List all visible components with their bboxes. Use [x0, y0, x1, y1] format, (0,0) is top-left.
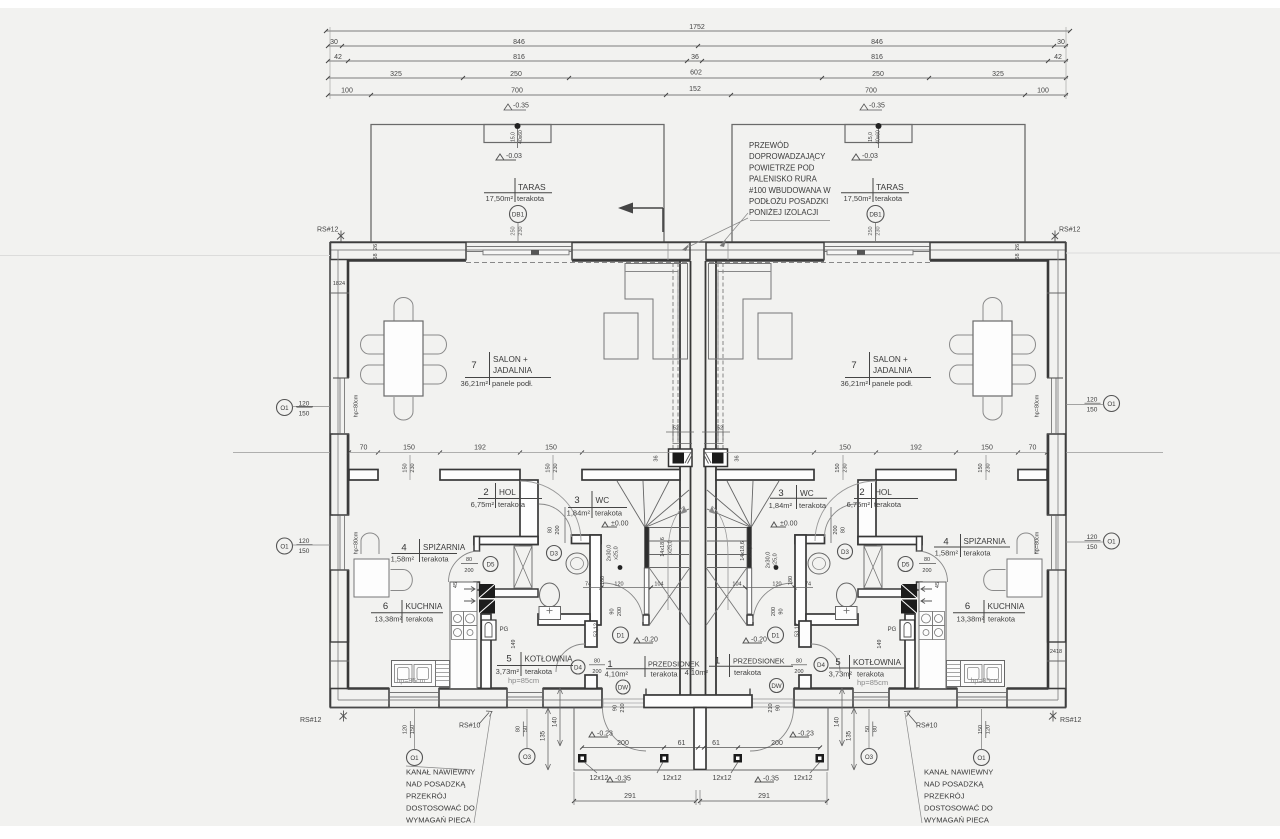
svg-text:80: 80 — [924, 557, 930, 563]
svg-text:x25,0: x25,0 — [668, 540, 674, 553]
air duct dashed lines — [672, 263, 674, 449]
RS10 leader right — [904, 711, 917, 724]
interior dim extension left — [233, 452, 330, 454]
svg-text:700: 700 — [865, 88, 877, 95]
svg-text:80: 80 — [873, 726, 879, 732]
svg-text:846: 846 — [513, 39, 525, 46]
left 140 vertical dim — [559, 688, 561, 746]
RS10 leader left — [479, 711, 492, 724]
svg-text:7: 7 — [471, 360, 476, 371]
svg-text:RS#12: RS#12 — [1059, 227, 1081, 234]
svg-text:KUCHNIA: KUCHNIA — [988, 602, 1025, 611]
svg-text:x25,0: x25,0 — [614, 546, 620, 559]
svg-text:150: 150 — [978, 725, 984, 734]
kitchen chair right — [391, 570, 413, 591]
svg-text:90: 90 — [613, 705, 619, 711]
roof drain dot — [515, 123, 521, 129]
kanal note leader left — [474, 713, 491, 823]
svg-text:-0.03: -0.03 — [862, 153, 878, 160]
svg-text:-0.20: -0.20 — [642, 637, 658, 644]
svg-text:104: 104 — [732, 582, 741, 588]
kanal note left — [406, 768, 475, 825]
svg-text:100: 100 — [341, 88, 353, 95]
svg-text:104: 104 — [654, 582, 663, 588]
dim row 816 — [328, 60, 1068, 62]
svg-text:816: 816 — [513, 54, 525, 61]
svg-text:1,58m²: 1,58m² — [935, 549, 959, 558]
svg-text:NAD POSADZKĄ: NAD POSADZKĄ — [406, 780, 466, 789]
svg-text:150: 150 — [839, 445, 851, 452]
margin window fractions — [299, 397, 1098, 556]
interior wall salon-south middle 192 — [440, 470, 520, 481]
svg-text:JADALNIA: JADALNIA — [873, 366, 913, 375]
svg-text:5: 5 — [506, 654, 511, 665]
stair up-cut cross — [649, 568, 690, 626]
svg-text:53,12: 53,12 — [594, 623, 600, 637]
svg-text:90: 90 — [610, 608, 616, 614]
terrace outline left unit — [371, 125, 664, 242]
svg-text:terakota: terakota — [498, 500, 526, 509]
kanal note right — [924, 768, 993, 825]
svg-text:36,21m²: 36,21m² — [460, 379, 488, 388]
svg-text:-0.35: -0.35 — [615, 776, 631, 783]
svg-text:13,38m²: 13,38m² — [374, 615, 402, 624]
RS12 flag bottom-right — [1049, 711, 1057, 722]
svg-text:200: 200 — [617, 607, 623, 616]
svg-text:D3: D3 — [550, 551, 558, 558]
svg-text:192: 192 — [910, 445, 922, 452]
svg-text:58: 58 — [1015, 253, 1021, 259]
svg-text:hp=80cm: hp=80cm — [354, 394, 360, 417]
svg-text:3,73m²: 3,73m² — [829, 670, 853, 679]
svg-text:O1: O1 — [280, 544, 289, 551]
svg-text:6,75m²: 6,75m² — [847, 500, 871, 509]
svg-text:terakota: terakota — [734, 668, 762, 677]
svg-text:210: 210 — [620, 703, 626, 712]
svg-text:1,84m²: 1,84m² — [769, 501, 793, 510]
svg-text:14x18,6: 14x18,6 — [660, 537, 666, 557]
svg-text:70: 70 — [360, 445, 368, 452]
interior wall salon-south stub 70 — [349, 470, 378, 481]
svg-text:TARAS: TARAS — [518, 182, 546, 192]
opening 150/230 rotated labels — [403, 463, 992, 472]
svg-text:PRZEKRÓJ: PRZEKRÓJ — [924, 792, 965, 801]
dim row 1752 — [326, 30, 1070, 32]
svg-text:12x12: 12x12 — [589, 775, 608, 782]
level 0.03 labels — [496, 154, 516, 160]
pantry cupboard with cross — [514, 546, 532, 588]
svg-text:SPIŻARNIA: SPIŻARNIA — [423, 543, 466, 552]
window O1 right callout 1 — [1104, 396, 1120, 412]
svg-text:30: 30 — [330, 39, 338, 46]
svg-text:80: 80 — [841, 527, 847, 533]
O1 bottom-right leader — [974, 750, 990, 766]
svg-text:80: 80 — [516, 726, 522, 732]
svg-text:terakota: terakota — [525, 667, 553, 676]
terrace step notch — [484, 125, 551, 143]
svg-text:1: 1 — [715, 656, 720, 667]
exterior left wall middle line — [337, 250, 339, 700]
svg-text:14x18,6: 14x18,6 — [740, 541, 746, 561]
right unit mirrored geometry — [698, 123, 1067, 751]
svg-text:terakota: terakota — [595, 509, 623, 518]
roof slope arrow left unit — [631, 207, 663, 209]
svg-text:150: 150 — [403, 445, 415, 452]
counter arrows — [464, 587, 475, 592]
toilet — [540, 583, 560, 607]
svg-text:120: 120 — [299, 401, 310, 408]
svg-text:325: 325 — [992, 71, 1004, 78]
dim row 100-700-152 — [328, 94, 1068, 96]
svg-text:PRZEWÓD: PRZEWÓD — [749, 141, 789, 150]
door size fractions — [464, 525, 931, 712]
svg-text:140: 140 — [553, 716, 559, 727]
svg-text:-0.35: -0.35 — [763, 776, 779, 783]
svg-text:1,58m²: 1,58m² — [391, 555, 415, 564]
window O1 right callout 2 — [1104, 533, 1120, 549]
svg-text:3: 3 — [778, 488, 783, 499]
svg-text:700: 700 — [511, 88, 523, 95]
window O1 left callout 2 — [277, 538, 293, 554]
svg-text:O1: O1 — [1107, 401, 1116, 408]
taras label left — [514, 178, 516, 202]
svg-text:150: 150 — [545, 445, 557, 452]
svg-text:150: 150 — [1087, 544, 1098, 551]
svg-text:2418: 2418 — [1050, 649, 1062, 655]
svg-text:135: 135 — [847, 730, 853, 741]
door D1 arc — [603, 583, 643, 622]
kitchen bottom counter — [392, 661, 450, 687]
svg-text:58: 58 — [373, 253, 379, 259]
svg-text:NAD POSADZKĄ: NAD POSADZKĄ — [924, 780, 984, 789]
hall-wc door arc — [520, 481, 581, 541]
svg-text:KOTŁOWNIA: KOTŁOWNIA — [853, 658, 902, 667]
svg-text:3: 3 — [574, 495, 579, 506]
door circles left unit — [483, 557, 498, 572]
svg-text:hp=80cm: hp=80cm — [354, 531, 360, 554]
svg-text:x25,0: x25,0 — [748, 544, 754, 557]
svg-text:17,50m²: 17,50m² — [843, 194, 871, 203]
svg-text:150: 150 — [981, 445, 993, 452]
svg-text:200: 200 — [794, 669, 803, 675]
tiny wall dims — [333, 130, 1062, 685]
svg-text:140: 140 — [835, 716, 841, 727]
svg-text:x25,0: x25,0 — [773, 553, 779, 566]
svg-text:90: 90 — [779, 608, 785, 614]
svg-text:4,10m²: 4,10m² — [605, 670, 629, 679]
svg-text:1752: 1752 — [689, 24, 705, 31]
svg-text:4,10m²: 4,10m² — [685, 668, 709, 677]
O3 bottom-left leader — [519, 749, 535, 765]
svg-text:-0.35: -0.35 — [513, 103, 529, 110]
bottom wall boxed segments — [331, 689, 390, 708]
svg-text:O1: O1 — [280, 405, 289, 412]
svg-text:135: 135 — [541, 730, 547, 741]
bottom window fractions rotated — [403, 725, 992, 734]
svg-text:WYMAGAŃ PIECA: WYMAGAŃ PIECA — [924, 816, 990, 825]
party wall — [679, 261, 681, 696]
pantry south wall — [480, 589, 539, 597]
svg-text:291: 291 — [758, 793, 770, 800]
coffee table — [604, 313, 638, 359]
svg-text:816: 816 — [871, 54, 883, 61]
svg-text:53,12: 53,12 — [795, 623, 801, 637]
svg-text:291: 291 — [624, 793, 636, 800]
dishwasher striped — [436, 661, 450, 687]
svg-text:KOTŁOWNIA: KOTŁOWNIA — [525, 655, 574, 664]
svg-text:40x60: 40x60 — [876, 130, 882, 144]
sliding door leaf — [483, 250, 569, 255]
svg-text:200: 200 — [617, 740, 629, 747]
svg-text:250: 250 — [868, 226, 874, 235]
exterior top wall middle line — [330, 249, 698, 251]
svg-text:200: 200 — [771, 607, 777, 616]
svg-text:RS#10: RS#10 — [459, 723, 481, 730]
svg-text:150: 150 — [410, 725, 416, 734]
svg-text:17,50m²: 17,50m² — [485, 194, 513, 203]
stair-hall west wall — [590, 535, 601, 625]
svg-text:-0.03: -0.03 — [506, 153, 522, 160]
hall west wall — [520, 480, 538, 545]
exterior left wall inner face segments — [347, 260, 350, 379]
svg-text:42: 42 — [334, 54, 342, 61]
kanal note leader right — [905, 713, 922, 823]
svg-text:O3: O3 — [865, 754, 874, 761]
svg-text:±0.00: ±0.00 — [611, 521, 629, 528]
duct dimension 52 — [666, 431, 694, 433]
svg-text:120: 120 — [1087, 534, 1098, 541]
porch post 4 — [816, 754, 825, 763]
svg-text:6,75m²: 6,75m² — [471, 500, 495, 509]
svg-text:6: 6 — [965, 601, 970, 612]
stair treads — [649, 528, 689, 615]
svg-text:200: 200 — [922, 568, 931, 574]
pantry top wall — [474, 537, 538, 545]
svg-text:WYMAGAŃ PIECA: WYMAGAŃ PIECA — [406, 816, 472, 825]
svg-text:325: 325 — [390, 71, 402, 78]
exterior bottom wall middle line — [338, 699, 602, 701]
svg-text:180: 180 — [600, 576, 606, 585]
svg-text:2x30,0: 2x30,0 — [607, 545, 613, 562]
svg-text:120: 120 — [614, 582, 623, 588]
svg-text:120: 120 — [772, 582, 781, 588]
svg-text:12x12: 12x12 — [793, 775, 812, 782]
porch 12x12 leader lines — [584, 762, 597, 773]
window W1 glazing — [339, 378, 341, 434]
chimney block — [669, 449, 693, 467]
stair walk line — [668, 506, 684, 610]
left 135 vertical dim — [547, 708, 549, 770]
svg-text:DB1: DB1 — [869, 212, 882, 219]
svg-text:50: 50 — [865, 726, 871, 732]
svg-text:DB1: DB1 — [512, 212, 525, 219]
svg-text:120: 120 — [403, 725, 409, 734]
svg-text:JADALNIA: JADALNIA — [493, 366, 533, 375]
svg-text:±0.00: ±0.00 — [780, 521, 798, 528]
porch rear wall between entries — [644, 695, 752, 708]
svg-text:12x12: 12x12 — [712, 775, 731, 782]
svg-text:150: 150 — [299, 411, 310, 418]
svg-text:terakota: terakota — [422, 555, 450, 564]
svg-text:terakota: terakota — [988, 615, 1016, 624]
corner sofa — [625, 264, 688, 360]
svg-text:HOL: HOL — [875, 488, 892, 497]
svg-text:RS#12: RS#12 — [1060, 717, 1082, 724]
svg-text:180: 180 — [788, 576, 794, 585]
svg-text:terakota: terakota — [517, 194, 545, 203]
svg-text:RS#10: RS#10 — [916, 723, 938, 730]
wash basin — [566, 553, 588, 574]
pantry door arc D5 — [449, 551, 480, 582]
svg-text:terakota: terakota — [651, 670, 679, 679]
kitchen table — [354, 559, 389, 597]
kitchen chair top — [361, 533, 379, 554]
porch post 2 — [660, 754, 669, 763]
overall porch dim lines 291 — [574, 800, 696, 802]
terrace sliding door glazing — [466, 246, 572, 248]
svg-text:PRZEDSIONEK: PRZEDSIONEK — [733, 657, 785, 666]
svg-text:30: 30 — [1057, 39, 1065, 46]
dim row 846 — [328, 45, 1068, 47]
right 135 vertical dim — [853, 708, 855, 770]
svg-text:SPIŻARNIA: SPIŻARNIA — [964, 537, 1007, 546]
svg-text:192: 192 — [474, 445, 486, 452]
O3 bottom-right leader — [861, 749, 877, 765]
svg-text:RS#12: RS#12 — [300, 717, 322, 724]
lintel dashed line — [466, 262, 690, 264]
svg-text:DOSTOSOWAĆ DO: DOSTOSOWAĆ DO — [924, 804, 993, 813]
svg-text:6: 6 — [383, 601, 388, 612]
svg-text:200: 200 — [771, 740, 783, 747]
svg-text:250: 250 — [510, 71, 522, 78]
svg-text:80: 80 — [594, 659, 600, 665]
svg-text:602: 602 — [690, 70, 702, 77]
svg-text:-0.23: -0.23 — [798, 731, 814, 738]
wc door leaf and arc — [564, 507, 566, 543]
porch slab outline — [574, 708, 828, 771]
left wall pier boxes — [331, 434, 349, 515]
wall joint tick left wall — [329, 292, 349, 294]
svg-text:D1: D1 — [772, 633, 780, 640]
svg-text:D5: D5 — [487, 562, 495, 569]
level flag 0.35 left — [504, 104, 526, 110]
svg-text:50: 50 — [523, 726, 529, 732]
svg-text:150: 150 — [299, 548, 310, 555]
svg-text:36: 36 — [654, 455, 660, 461]
pantry west wall stubs — [474, 537, 480, 552]
stair newel dot — [618, 565, 623, 570]
svg-text:90: 90 — [776, 705, 782, 711]
RS12 flag bottom-left — [340, 711, 348, 722]
svg-text:42: 42 — [1054, 54, 1062, 61]
svg-text:230: 230 — [986, 463, 992, 472]
RS12 flag top-right — [1052, 231, 1060, 242]
svg-text:hp=85cm: hp=85cm — [857, 678, 888, 687]
svg-text:PODŁOŻU POSADZKI: PODŁOŻU POSADZKI — [749, 197, 828, 206]
stair dim line — [583, 587, 689, 589]
svg-text:150: 150 — [403, 463, 409, 472]
dining table — [384, 321, 423, 396]
svg-text:149: 149 — [877, 639, 883, 648]
svg-text:PALENISKO RURA: PALENISKO RURA — [749, 175, 818, 184]
svg-text:230: 230 — [518, 226, 524, 235]
svg-text:120: 120 — [986, 725, 992, 734]
porch post 3 — [734, 754, 743, 763]
svg-text:52: 52 — [673, 426, 679, 432]
boiler room east wall stubs — [585, 621, 597, 647]
interior dim extension right — [1066, 452, 1163, 454]
party wall stub in porch — [694, 708, 706, 770]
interior dim row under salon — [347, 451, 1049, 455]
window O1 left callout 1 — [277, 400, 293, 416]
svg-text:SALON +: SALON + — [493, 355, 528, 364]
svg-text:100: 100 — [1037, 88, 1049, 95]
svg-text:panele podł.: panele podł. — [872, 379, 913, 388]
svg-text:1,84m²: 1,84m² — [567, 509, 591, 518]
svg-text:150: 150 — [978, 463, 984, 472]
svg-text:WC: WC — [596, 496, 610, 505]
svg-text:200: 200 — [464, 568, 473, 574]
exterior bottom wall outer line — [330, 707, 602, 709]
stairs winder fan — [617, 481, 689, 528]
svg-text:210: 210 — [768, 703, 774, 712]
svg-text:80: 80 — [796, 659, 802, 665]
svg-text:hp=80cm: hp=80cm — [1035, 531, 1041, 554]
svg-text:PRZEKRÓJ: PRZEKRÓJ — [406, 792, 447, 801]
svg-text:O1: O1 — [1107, 539, 1116, 546]
svg-text:4: 4 — [401, 543, 406, 554]
svg-text:D4: D4 — [817, 662, 825, 669]
extension ticks rows — [329, 27, 331, 99]
svg-text:120: 120 — [1087, 397, 1098, 404]
O1 bottom-left leader — [407, 750, 423, 766]
svg-text:230: 230 — [553, 463, 559, 472]
svg-text:230: 230 — [843, 463, 849, 472]
svg-text:250: 250 — [872, 71, 884, 78]
svg-text:terakota: terakota — [406, 615, 434, 624]
svg-text:KANAŁ NAWIEWNY: KANAŁ NAWIEWNY — [924, 768, 993, 777]
przewod note — [749, 141, 831, 217]
right 140 vertical dim — [841, 688, 843, 746]
kitchen tall counter — [450, 582, 477, 689]
svg-text:52: 52 — [717, 426, 723, 432]
svg-text:230: 230 — [876, 226, 882, 235]
svg-text:70: 70 — [1029, 445, 1037, 452]
faint fold lines — [0, 255, 330, 257]
svg-text:D4: D4 — [574, 665, 582, 672]
svg-text:36,21m²: 36,21m² — [840, 379, 868, 388]
svg-text:152: 152 — [689, 86, 701, 93]
svg-text:hp=80cm: hp=80cm — [1035, 394, 1041, 417]
svg-text:-0.23: -0.23 — [597, 731, 613, 738]
svg-text:hp=85cm: hp=85cm — [508, 676, 539, 685]
svg-text:846: 846 — [871, 39, 883, 46]
svg-text:15,0: 15,0 — [511, 132, 517, 142]
svg-text:149: 149 — [511, 639, 517, 648]
svg-text:terakota: terakota — [799, 501, 827, 510]
svg-text:panele podł.: panele podł. — [492, 379, 533, 388]
door D4 arc — [556, 644, 585, 672]
przewod note leaders — [682, 213, 748, 250]
svg-text:hp=85cm: hp=85cm — [397, 678, 426, 685]
svg-text:KANAŁ NAWIEWNY: KANAŁ NAWIEWNY — [406, 768, 475, 777]
stair-hall south stub — [643, 615, 649, 625]
svg-text:D5: D5 — [902, 562, 910, 569]
svg-text:26: 26 — [373, 244, 379, 250]
top wall boxed segments — [331, 243, 467, 260]
svg-text:200: 200 — [555, 525, 561, 534]
level flag 0.35 right — [860, 104, 882, 110]
